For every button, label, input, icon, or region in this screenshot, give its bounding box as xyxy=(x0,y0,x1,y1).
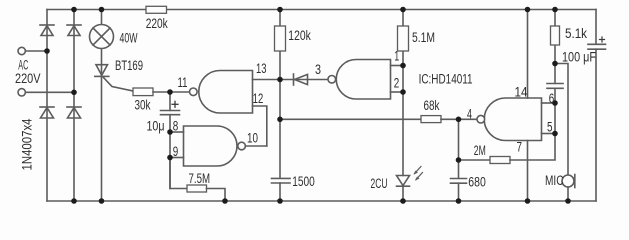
node AC1 xyxy=(44,48,50,54)
resistor 68k xyxy=(421,116,441,123)
capacitor 10u xyxy=(161,111,180,115)
resistor 220k (in top rail) xyxy=(146,6,167,13)
AC terminal upper xyxy=(18,47,25,54)
node bottom x568 xyxy=(565,198,571,204)
node bottom x403 xyxy=(400,198,406,204)
thyristor Q1 BT169 xyxy=(95,65,133,91)
node pin13/diode xyxy=(277,77,283,83)
node 68k left xyxy=(277,117,283,123)
node 68k right xyxy=(456,117,462,123)
svg-text:10: 10 xyxy=(247,131,258,146)
node pin9 xyxy=(167,155,173,161)
NAND gate U1c pins 8,9 in 10 out xyxy=(184,126,246,166)
svg-text:7: 7 xyxy=(517,140,523,155)
node top rail x403 xyxy=(400,7,406,13)
node bottom x74 xyxy=(71,198,77,204)
resistor 120k xyxy=(275,26,286,51)
node bottom x280 xyxy=(277,198,283,204)
svg-text:100 μF: 100 μF xyxy=(562,50,596,65)
wire 10u column lower xyxy=(169,115,171,189)
node bottom x527 xyxy=(525,198,531,204)
svg-text:6: 6 xyxy=(549,91,555,106)
resistor 30k xyxy=(133,88,153,96)
node pin8 xyxy=(167,129,173,135)
svg-text:5: 5 xyxy=(547,120,553,135)
wire 1500 to bottom rail xyxy=(279,183,281,201)
wire right edge column x=596 xyxy=(595,10,597,45)
node bottom x101 xyxy=(99,198,105,204)
wire AC lower to bridge xyxy=(25,91,74,93)
resistor 5.1k xyxy=(551,26,560,45)
wire bridge left column x=47 xyxy=(46,10,48,202)
svg-text:220k: 220k xyxy=(146,16,168,31)
lamp 40W xyxy=(90,25,114,49)
AC terminal lower xyxy=(18,89,25,96)
svg-text:1N4007x4: 1N4007x4 xyxy=(20,118,35,170)
wire pin14 to top rail xyxy=(527,10,529,99)
wire lamp/SCR column x=101.5 xyxy=(101,10,103,202)
svg-text:11: 11 xyxy=(178,75,188,90)
svg-text:9: 9 xyxy=(173,144,179,159)
resistor 7.5M xyxy=(187,185,207,192)
node top rail x101 xyxy=(99,7,105,13)
svg-text:MIC: MIC xyxy=(545,173,564,188)
node top rail x74 xyxy=(71,7,77,13)
svg-text:8: 8 xyxy=(173,119,179,134)
node pin1 xyxy=(400,63,406,69)
photodiode 2CU xyxy=(397,176,410,187)
wire 68k net xyxy=(280,118,421,120)
svg-text:220V: 220V xyxy=(15,71,41,86)
microphone MIC xyxy=(562,175,575,188)
node 5.1k bottom xyxy=(552,61,558,67)
wire 2M net xyxy=(459,159,491,161)
resistor 2M xyxy=(490,157,510,164)
node top rail x280 xyxy=(277,7,283,13)
svg-text:12: 12 xyxy=(253,91,263,106)
svg-text:IC:HD14011: IC:HD14011 xyxy=(419,71,473,86)
wire 7.5M loop xyxy=(170,158,187,189)
wire 30k to pin11 bubble xyxy=(153,91,190,93)
svg-text:3: 3 xyxy=(315,62,321,77)
svg-text:2: 2 xyxy=(394,76,400,91)
wire pin9 xyxy=(170,157,184,159)
diode D3 bottom-left 1N4007 xyxy=(40,107,54,118)
wire top rail left segment xyxy=(47,9,146,11)
wire 68k to pin4 bubble xyxy=(441,118,477,120)
wire 7.5M to bottom rail xyxy=(207,189,226,202)
node pin11 xyxy=(167,89,173,95)
svg-text:120k: 120k xyxy=(288,28,311,43)
svg-text:BT169: BT169 xyxy=(115,58,143,73)
wire jog node to MIC column xyxy=(555,64,568,176)
wire top rail right segment xyxy=(167,9,597,11)
svg-text:680: 680 xyxy=(468,175,486,190)
node pin5 xyxy=(552,131,558,137)
wire MIC to bottom rail xyxy=(567,187,569,201)
NAND gate U1a pins 13,12 in 11 out (mirrored) xyxy=(190,71,253,114)
svg-text:10μ: 10μ xyxy=(147,119,165,134)
svg-text:40W: 40W xyxy=(120,31,138,46)
svg-text:4: 4 xyxy=(467,106,472,121)
wire 5.1k column upper x=555 xyxy=(554,10,556,84)
node pin2 xyxy=(400,89,406,95)
wire right edge lower xyxy=(595,49,597,201)
node AC2 xyxy=(71,90,77,96)
plus sign 100uF xyxy=(599,36,605,42)
svg-text:68k: 68k xyxy=(424,98,440,113)
capacitor 100uF xyxy=(588,44,606,49)
diode D1 top-left 1N4007 xyxy=(40,25,54,36)
node pin6 xyxy=(552,100,558,106)
node top rail x527 xyxy=(525,7,531,13)
svg-text:14: 14 xyxy=(515,84,528,99)
svg-text:1: 1 xyxy=(394,49,399,64)
wire 680 column x=459 xyxy=(458,119,460,178)
svg-text:1500: 1500 xyxy=(292,174,315,189)
capacitor mic coupling xyxy=(547,84,563,89)
node top rail x555 xyxy=(552,7,558,13)
svg-text:2M: 2M xyxy=(474,143,486,158)
wire 5.1M/photodiode column x=403 xyxy=(402,10,404,176)
svg-text:5.1M: 5.1M xyxy=(412,30,435,45)
wire 2M to pin5 line xyxy=(510,88,555,160)
wire pin10 output to pin12 xyxy=(245,145,266,147)
svg-text:30k: 30k xyxy=(135,98,151,113)
resistor 5.1M xyxy=(398,26,409,51)
node bottom x459 xyxy=(456,198,462,204)
diode D2 top 1N4007 xyxy=(67,25,81,36)
wire pin1 xyxy=(391,65,404,67)
wire 680 to bottom rail xyxy=(458,183,460,201)
wire bottom rail xyxy=(47,200,596,202)
wire pin7 to bottom rail xyxy=(527,141,529,202)
wire pin12 xyxy=(253,106,267,146)
plus sign 10u xyxy=(171,101,178,108)
wire pin6 xyxy=(542,102,556,104)
wire pin13 xyxy=(253,79,281,81)
wire node to diode xyxy=(280,79,328,81)
svg-text:2CU: 2CU xyxy=(371,176,388,191)
wire AC upper to bridge xyxy=(25,50,47,52)
capacitor 680 xyxy=(451,179,467,184)
wire photodiode to bottom rail xyxy=(402,186,404,201)
photodiode arrows xyxy=(414,167,423,181)
wire pin5 xyxy=(542,133,556,135)
svg-text:5.1k: 5.1k xyxy=(565,26,587,41)
NAND gate U1d pins 6,5 in 4 out (mirrored) xyxy=(477,98,542,141)
wire 120k/1500 column x=280 xyxy=(279,10,281,179)
diode D4 bottom 1N4007 xyxy=(67,107,81,118)
node 2M left xyxy=(456,157,462,163)
NAND gate U1b pins 1,2 in 3 out (mirrored) xyxy=(328,60,391,100)
wire pin8 xyxy=(170,131,184,133)
node bottom x225 xyxy=(222,198,228,204)
wire bridge second column x=74 xyxy=(73,10,75,202)
svg-text:13: 13 xyxy=(256,61,267,76)
wire pin2 xyxy=(391,91,404,93)
svg-text:7.5M: 7.5M xyxy=(189,171,211,186)
wire 10u column x=170 upper xyxy=(169,92,171,110)
capacitor 1500 xyxy=(272,178,291,183)
diode D5 xyxy=(294,74,308,85)
